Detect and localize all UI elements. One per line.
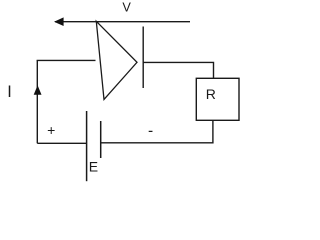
wire: left horizontal to triangle [37,59,96,61]
svg-text:I: I [7,83,12,101]
resistor R box [196,78,239,120]
svg-text:E: E [89,159,98,175]
wire: left vertical [36,60,38,143]
wire: top horizontal line of V arrow [55,21,190,23]
arrowhead of V arrow pointing left [54,17,64,26]
svg-text:+: + [47,122,55,138]
wire: battery left to bottom-left corner [37,142,86,144]
cathode bar [142,27,144,89]
svg-text:V: V [122,0,131,14]
battery E short plate [100,121,102,158]
wire: resistor bottom down and left to battery [101,120,213,143]
diode triangle U1 [96,21,137,99]
svg-text:R: R [206,86,216,102]
battery E long plate [86,111,88,181]
arrowhead of I current arrow pointing up [34,85,42,95]
wire: cathode to resistor horizontal [143,62,213,78]
svg-text:-: - [148,122,153,139]
